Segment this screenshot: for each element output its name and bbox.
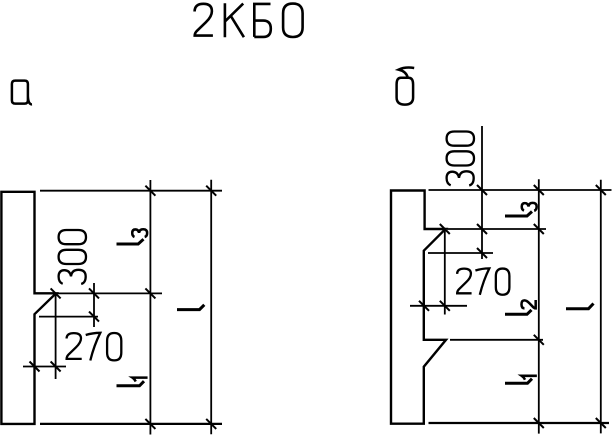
tick a bottom #1 xyxy=(145,419,155,429)
tick b 253 line at x482 xyxy=(477,248,487,258)
label l3 bar (figure b) xyxy=(505,212,532,217)
label l3 subscript 3 (figure b) xyxy=(522,203,537,211)
value 300 (figure b, rotated) xyxy=(447,132,474,186)
tick a bottom #2 xyxy=(206,419,216,429)
wire vertical dimension line b #1 (l3/l2/l1 chain) xyxy=(538,179,540,433)
tick a mid at x55 xyxy=(51,288,61,298)
tick a top #2 xyxy=(206,186,216,196)
wire 253 dimension line b xyxy=(428,252,493,254)
tick a low line at x55.6 xyxy=(51,362,61,372)
label l1 bar (figure b) xyxy=(505,379,532,384)
wire lower small dimension line a xyxy=(23,366,66,368)
wire vertical 300-dimension line a xyxy=(93,283,95,327)
label l3 bar (figure a) xyxy=(117,239,144,244)
wire 270 dimension line a xyxy=(39,316,98,318)
tick a top #1 xyxy=(145,186,155,196)
tick b 270 line at x444.8 xyxy=(440,301,450,311)
wire top dimension line a xyxy=(40,190,222,192)
label l bar (figure a) xyxy=(177,305,204,310)
wire 270 dimension line b xyxy=(410,305,467,307)
tick b l3 line at x482 xyxy=(477,224,487,234)
label а (figure a) xyxy=(12,81,32,105)
label l1 subscript 1 (figure b) xyxy=(522,376,537,380)
column outline figure a xyxy=(1,192,56,424)
wire vertical dimension line b #2 (l chain) xyxy=(600,180,602,434)
wire l2/l1 divider dimension line b xyxy=(450,339,543,341)
tick b bottom #1 xyxy=(534,418,544,428)
column outline figure b xyxy=(391,191,446,424)
label l1 bar (figure a) xyxy=(117,381,145,386)
wire vertical dimension line a #2 (l chain) xyxy=(210,180,212,434)
value 300 (figure a, rotated) xyxy=(59,230,86,284)
tick a mid at x94 xyxy=(89,288,99,298)
wire bottom dimension line b xyxy=(429,422,610,424)
label l3 subscript 3 (figure a) xyxy=(132,229,147,237)
wire bottom dimension line a xyxy=(40,423,222,425)
wire vertical extension from wedge corner b xyxy=(444,231,446,315)
wire vertical dimension line a #1 (l3/l1 chain) xyxy=(149,180,151,435)
tick b l3 line at x444.8 xyxy=(440,224,450,234)
tick b l2 divider at x538.8 xyxy=(534,335,544,345)
tick a low line at x34.5 xyxy=(30,362,40,372)
wire top dimension line b xyxy=(429,189,612,191)
label l1 subscript 1 (figure a) xyxy=(132,378,147,382)
label l2 bar (figure b) xyxy=(505,310,532,314)
value 270 (figure b) xyxy=(457,268,509,294)
wire vertical extension from wedge corner a xyxy=(55,293,57,379)
wire mid dimension line a (l3/l1 divider) xyxy=(56,292,162,294)
tick a mid at x150 xyxy=(145,288,155,298)
tick a 270 line at x94 xyxy=(89,312,99,322)
label l bar (figure b) xyxy=(566,304,594,309)
wire vertical 300-dimension line b xyxy=(481,126,483,259)
tick b top #1 xyxy=(534,185,544,195)
label l2 subscript 2 (figure b) xyxy=(521,300,535,308)
tick b top #2 xyxy=(596,185,606,195)
title 2КБО xyxy=(195,3,303,37)
tick b bottom #2 xyxy=(596,418,606,428)
label б (figure b) xyxy=(397,68,415,105)
tick b 270 line at x424 xyxy=(419,301,429,311)
tick b l3 line at x538.8 xyxy=(534,224,544,234)
value 270 (figure a) xyxy=(67,333,122,361)
wire l3 dimension line b xyxy=(447,228,546,230)
tick b top line at x482 xyxy=(477,185,487,195)
